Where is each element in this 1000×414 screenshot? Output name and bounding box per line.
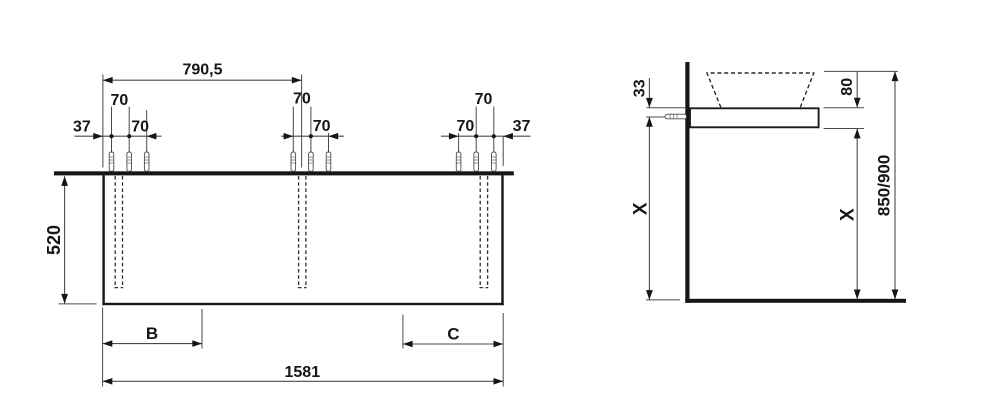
- label 70 middle upper: [293, 91, 311, 108]
- dimension 33: [632, 78, 653, 108]
- svg-text:X: X: [630, 202, 651, 215]
- leader lines middle group: [293, 107, 328, 172]
- extension line countertop top right: [824, 107, 865, 109]
- dimension C: [403, 315, 503, 349]
- svg-text:37: 37: [73, 119, 91, 136]
- label 70 right upper: [475, 91, 493, 108]
- dimension X left: [630, 117, 652, 300]
- dimension X right: [838, 129, 861, 300]
- dimension 520: [44, 176, 97, 304]
- svg-text:C: C: [447, 324, 459, 343]
- floor (side view): [685, 299, 906, 303]
- dimension 80: [839, 71, 861, 107]
- drain pipe dashed (left): [115, 176, 124, 288]
- wall (side view): [685, 62, 689, 303]
- dowel group middle: [291, 152, 331, 171]
- label 70 left lower: [131, 119, 149, 136]
- svg-text:70: 70: [293, 91, 311, 108]
- countertop (side view): [690, 108, 819, 127]
- svg-text:33: 33: [632, 79, 649, 97]
- dimension 850/900: [875, 71, 899, 299]
- svg-text:520: 520: [44, 225, 64, 255]
- cabinet body outline: [102, 175, 503, 305]
- extension line tap centre: [646, 116, 665, 118]
- svg-text:70: 70: [475, 91, 493, 108]
- wall tap symbol: [665, 114, 687, 119]
- extension line countertop top (left side): [647, 107, 686, 109]
- extension line left (x=102.9): [102, 75, 104, 168]
- svg-text:70: 70: [111, 92, 129, 109]
- svg-text:B: B: [146, 324, 158, 343]
- leader lines right group: [459, 107, 494, 172]
- svg-text:790,5: 790,5: [182, 62, 222, 79]
- label 70 left upper: [111, 92, 129, 109]
- svg-text:70: 70: [457, 118, 475, 135]
- extension line floor left: [646, 299, 680, 301]
- dowel group right: [456, 152, 496, 171]
- svg-text:X: X: [838, 208, 859, 221]
- extension line countertop bottom right: [824, 128, 865, 130]
- svg-text:70: 70: [313, 118, 331, 135]
- extension line right (x=503.2): [502, 136, 504, 166]
- basin dashed outline: [707, 73, 814, 108]
- countertop slab (front view): [54, 171, 514, 175]
- dim line middle group (70/70): [281, 133, 344, 140]
- svg-text:850/900: 850/900: [875, 155, 894, 216]
- drain pipe dashed (right): [480, 176, 489, 288]
- svg-text:80: 80: [839, 78, 856, 96]
- dimension B: [103, 309, 202, 349]
- extension line middle (x=301.6): [301, 75, 303, 168]
- label 37 right: [513, 118, 531, 135]
- svg-text:70: 70: [131, 119, 149, 136]
- dimension 1581: [103, 308, 504, 387]
- dim line right group (70/70/37): [441, 133, 531, 140]
- drain pipe dashed (middle): [298, 176, 307, 288]
- dowel group left: [109, 152, 149, 171]
- label 70 middle lower: [313, 118, 331, 135]
- svg-text:1581: 1581: [285, 364, 321, 381]
- dimension 790,5: [103, 62, 302, 84]
- label 70 right lower: [457, 118, 475, 135]
- extension line basin rim right: [824, 70, 898, 72]
- leader lines left group: [112, 107, 147, 172]
- label 37 left: [73, 119, 91, 136]
- svg-text:37: 37: [513, 118, 531, 135]
- dim line left group (37/70/70): [74, 133, 161, 140]
